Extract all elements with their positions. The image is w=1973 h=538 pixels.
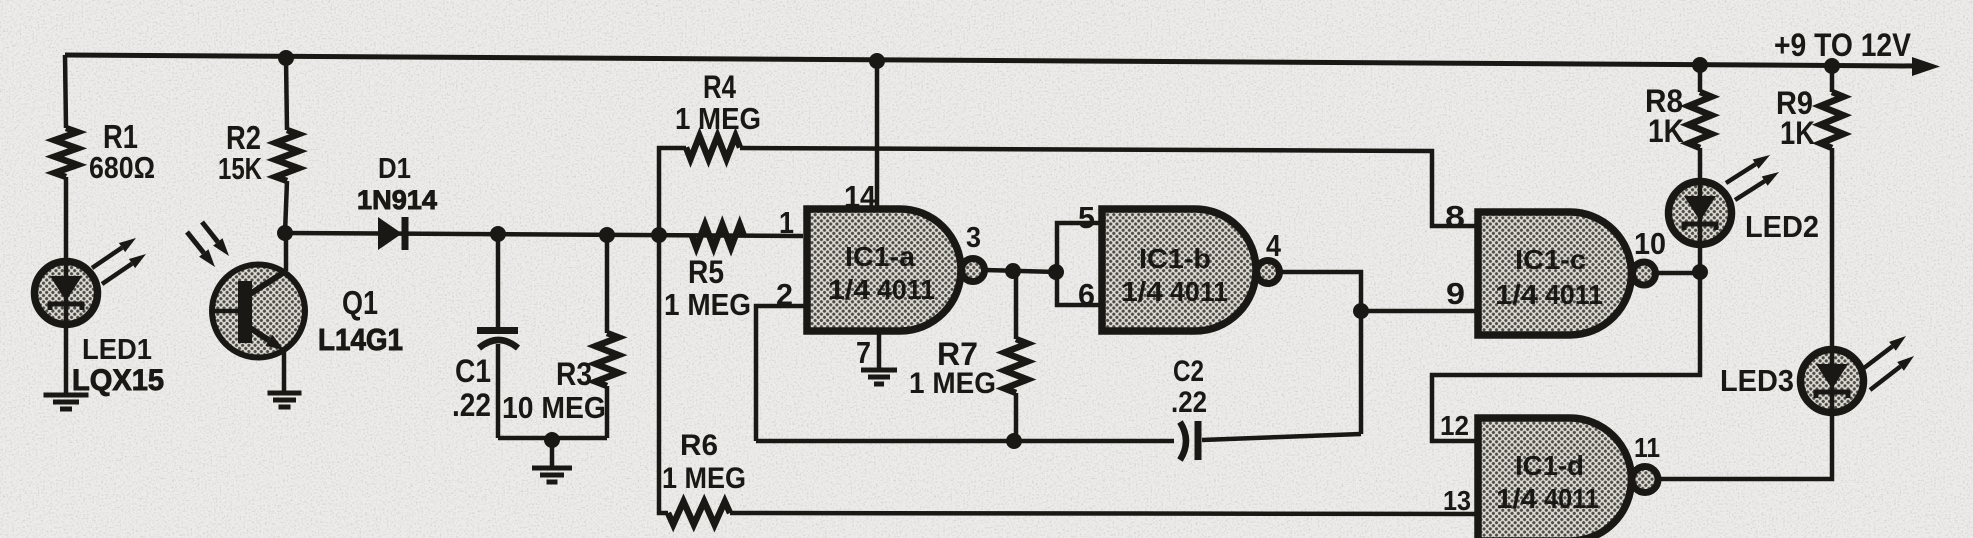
svg-text:1/4: 1/4 — [1495, 279, 1538, 310]
svg-text:.22: .22 — [452, 387, 491, 423]
svg-text:Q1: Q1 — [342, 284, 378, 321]
resistor R6 — [668, 502, 730, 525]
wire R4 to IC1-c pin 8 — [740, 148, 1478, 226]
wire R1 to LED1 — [64, 177, 69, 262]
junction rail/R9 — [1824, 58, 1840, 74]
wire rail to R2 — [286, 58, 287, 130]
junction rail/R2 — [278, 50, 294, 66]
pin 4 output wire — [1280, 272, 1361, 311]
wire pin4 node to IC1-c pin 9 — [1361, 309, 1478, 314]
node LED3 photon arrows — [1864, 346, 1893, 368]
pin 10 output wire — [1656, 271, 1700, 276]
svg-text:4011: 4011 — [877, 274, 935, 305]
svg-text:10: 10 — [1634, 226, 1666, 261]
svg-text:2: 2 — [776, 277, 793, 312]
svg-text:4011: 4011 — [1545, 279, 1603, 310]
resistor R4 — [686, 136, 740, 159]
svg-text:1K: 1K — [1648, 113, 1684, 149]
svg-text:11: 11 — [1634, 432, 1660, 463]
node LED2 photon arrows — [1726, 164, 1756, 183]
wire IC1-b input bracket pins 5/6 — [1057, 223, 1102, 305]
svg-text:IC1-a: IC1-a — [845, 241, 915, 272]
wire C1 bottom lead — [496, 344, 501, 438]
ground under C1/R3 — [532, 466, 572, 471]
NAND gate IC1-a — [807, 209, 961, 331]
junction node B — [277, 225, 293, 241]
svg-text:C2: C2 — [1173, 355, 1204, 388]
node Q1 photon arrows — [187, 232, 204, 253]
resistor R8 — [1698, 65, 1703, 92]
wire pin10 node to IC1-d pin 12 — [1432, 272, 1700, 441]
resistor R9 — [1821, 92, 1844, 148]
junction node at x659 — [651, 227, 667, 243]
junction R3 top — [599, 227, 615, 243]
svg-text:L14G1: L14G1 — [318, 322, 403, 357]
NAND gate IC1-d — [1478, 418, 1631, 538]
svg-text:1: 1 — [779, 205, 794, 240]
svg-text:15K: 15K — [218, 151, 262, 186]
wire R1 branch from rail — [65, 55, 66, 128]
svg-text:680Ω: 680Ω — [89, 150, 155, 185]
transistor Q1 — [284, 233, 289, 271]
capacitor C1 — [477, 327, 518, 334]
resistor R3 — [605, 235, 610, 333]
wire node B to D1 and IC1-a pin1 — [285, 233, 803, 236]
svg-text:.22: .22 — [1171, 386, 1207, 419]
wire R8 to LED2 — [1698, 148, 1703, 182]
wire feedback down to C2 line — [1359, 311, 1364, 434]
wire LED2 to pin10 node — [1698, 244, 1703, 273]
pin 2 stub and label — [756, 306, 807, 441]
svg-text:R6: R6 — [680, 429, 718, 462]
svg-text:12: 12 — [1440, 410, 1469, 441]
svg-text:C1: C1 — [455, 353, 491, 389]
pin 11 output wire to LED3 — [1658, 412, 1832, 479]
resistor R7 — [1014, 272, 1019, 339]
svg-text:5: 5 — [1078, 200, 1095, 235]
svg-text:R4: R4 — [703, 69, 736, 105]
wire R3 bottom lead — [605, 386, 610, 438]
svg-text:1/4: 1/4 — [1121, 276, 1163, 307]
resistor R1 — [55, 128, 78, 177]
junction C1/R3 ground node — [544, 432, 560, 448]
junction at 1013,271 — [1005, 263, 1021, 279]
junction rail/R8 — [1692, 57, 1708, 73]
junction at 1056,272 — [1048, 264, 1064, 280]
svg-text:1K: 1K — [1780, 115, 1815, 151]
wire C1/R3 bottom join — [498, 436, 607, 441]
junction at 1014,441 — [1006, 433, 1022, 449]
svg-text:IC1-d: IC1-d — [1515, 450, 1584, 481]
svg-text:4011: 4011 — [1544, 483, 1599, 514]
wire vertical riser to R4 — [659, 148, 686, 235]
junction at 1700,272 — [1692, 264, 1708, 280]
wire to ground — [550, 440, 555, 467]
svg-text:IC1-c: IC1-c — [1515, 244, 1586, 275]
ground under LED1 — [44, 393, 89, 398]
svg-text:14: 14 — [844, 179, 877, 214]
wire R2 to node B — [285, 181, 287, 233]
wire Q1 emitter to ground — [282, 350, 287, 392]
svg-text:LQX15: LQX15 — [72, 364, 164, 397]
svg-text:IC1-b: IC1-b — [1139, 243, 1211, 274]
wire LED1 to ground — [64, 324, 69, 394]
NAND gate IC1-c — [1478, 212, 1631, 335]
pin 14 wire — [875, 61, 880, 209]
capacitor C2 — [1180, 422, 1186, 460]
junction at 1361,311 — [1353, 303, 1369, 319]
svg-text:1/4: 1/4 — [828, 274, 870, 305]
pin 3 output wire — [985, 270, 1057, 272]
resistor R2 — [276, 130, 299, 181]
wire C2 to pin4 node — [1202, 434, 1361, 440]
svg-text:D1: D1 — [378, 153, 411, 185]
svg-text:R3: R3 — [556, 356, 592, 392]
junction C1 top — [490, 226, 506, 242]
diode D1 — [378, 217, 402, 250]
node LED1 photon arrows — [92, 248, 122, 268]
svg-text:+9 TO 12V: +9 TO 12V — [1774, 27, 1912, 63]
svg-text:1 MEG: 1 MEG — [662, 462, 746, 495]
node top rail arrowhead — [1912, 57, 1940, 76]
svg-text:1N914: 1N914 — [357, 185, 437, 215]
svg-text:1 MEG: 1 MEG — [675, 101, 761, 136]
LED LED2 — [1669, 182, 1732, 245]
NAND gate IC1-b — [1102, 209, 1256, 331]
svg-text:7: 7 — [856, 335, 871, 370]
svg-text:LED1: LED1 — [82, 334, 152, 366]
LED LED3 — [1801, 350, 1864, 413]
wire vertical down to R6 — [659, 235, 668, 513]
wire feedback line (pin2 to C2) — [756, 439, 1174, 444]
svg-text:13: 13 — [1443, 485, 1471, 516]
wire R9 to rail — [1830, 66, 1835, 92]
wire C1 top lead — [496, 234, 501, 330]
LED LED1 — [35, 262, 98, 325]
wire R6 to IC1-d pin 13 — [730, 513, 1478, 514]
svg-text:1 MEG: 1 MEG — [909, 367, 996, 400]
svg-text:1 MEG: 1 MEG — [664, 287, 751, 322]
svg-text:4: 4 — [1266, 228, 1282, 263]
junction at 877,61 — [869, 53, 885, 69]
svg-text:LED2: LED2 — [1745, 209, 1819, 244]
wire +V top rail — [65, 55, 1916, 66]
svg-text:6: 6 — [1078, 277, 1095, 312]
svg-text:LED3: LED3 — [1720, 363, 1794, 398]
svg-text:10 MEG: 10 MEG — [502, 390, 606, 425]
svg-text:3: 3 — [966, 222, 981, 254]
svg-text:8: 8 — [1445, 199, 1465, 234]
svg-text:4011: 4011 — [1170, 276, 1228, 307]
svg-text:R5: R5 — [688, 254, 724, 290]
ground under Q1 — [268, 391, 302, 396]
pin 7 wire and ground — [877, 331, 882, 369]
svg-text:9: 9 — [1446, 276, 1465, 311]
resistor R5 — [692, 225, 744, 248]
wire LED3 to R9 — [1830, 148, 1835, 350]
svg-text:1/4: 1/4 — [1496, 483, 1537, 514]
